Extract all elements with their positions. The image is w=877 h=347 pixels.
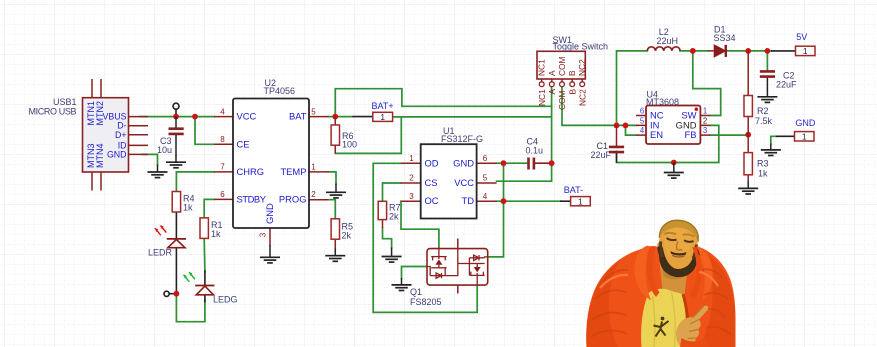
- svg-text:1: 1: [311, 163, 316, 172]
- wire CHRG to R4: [176, 172, 214, 192]
- wire Q1 left pin to ground: [402, 267, 428, 279]
- jacket collar right: [696, 247, 713, 300]
- svg-text:BAT-: BAT-: [564, 185, 583, 195]
- port GND: [795, 118, 816, 142]
- wire CS to R7: [383, 183, 401, 201]
- svg-text:R2: R2: [757, 106, 769, 116]
- face: [656, 219, 700, 274]
- ground gnd port: [761, 144, 781, 156]
- beard: [657, 248, 698, 278]
- switch SW1 Toggle Switch: [537, 35, 608, 110]
- wire C1 bottom rail: [617, 125, 719, 162]
- wire LEDG bottom lead: [204, 295, 206, 302]
- ic U4 MT3608: [636, 90, 710, 144]
- node LEDR cathode: [174, 291, 180, 297]
- svg-text:5: 5: [311, 107, 316, 116]
- svg-text:7.5k: 7.5k: [755, 116, 773, 126]
- jacket shading right arm: [699, 253, 736, 347]
- svg-text:Toggle Switch: Toggle Switch: [553, 42, 609, 52]
- svg-text:4: 4: [483, 192, 488, 201]
- svg-text:5: 5: [640, 117, 645, 126]
- svg-text:FS312F-G: FS312F-G: [441, 134, 483, 144]
- led LEDR: [148, 225, 186, 257]
- svg-text:5V: 5V: [796, 32, 807, 42]
- svg-text:5: 5: [483, 174, 488, 183]
- wire STDBY to R1: [204, 199, 214, 218]
- svg-text:22uF: 22uF: [776, 80, 797, 90]
- svg-text:GND: GND: [107, 149, 127, 159]
- svg-text:FS8205: FS8205: [410, 297, 442, 307]
- svg-text:3: 3: [703, 126, 707, 135]
- svg-text:1: 1: [703, 107, 707, 116]
- svg-text:NC1: NC1: [537, 89, 547, 106]
- capacitor C4 0.1u: [526, 137, 544, 170]
- svg-text:B: B: [567, 89, 577, 95]
- svg-text:GND: GND: [795, 118, 816, 128]
- svg-text:3: 3: [259, 232, 268, 237]
- wire EN tie: [626, 125, 637, 135]
- node BAT junction: [332, 114, 338, 120]
- ground temp: [326, 184, 346, 198]
- jacket shading left arm: [586, 260, 620, 347]
- node C4 VCC junction: [549, 160, 555, 166]
- wire BATminus port lead: [561, 200, 571, 202]
- svg-text:USB1: USB1: [53, 97, 77, 107]
- wire R7 ground jog: [383, 228, 392, 248]
- pointing hand: [676, 306, 708, 347]
- port BAT-: [564, 185, 591, 207]
- node C2 top: [765, 48, 771, 54]
- svg-text:1k: 1k: [758, 169, 768, 179]
- eyebrows: [664, 232, 694, 236]
- ground u2 pin3: [260, 245, 280, 263]
- wire TD to BATminus port: [497, 200, 561, 202]
- svg-text:22uF: 22uF: [590, 150, 611, 160]
- capacitor C2 22uF: [760, 71, 797, 91]
- wire 5V rail: [680, 50, 772, 52]
- svg-text:OC: OC: [425, 195, 439, 206]
- ground q1 left: [392, 278, 412, 291]
- node U1 GND riser: [501, 160, 507, 166]
- svg-text:MT3608: MT3608: [646, 97, 679, 107]
- svg-text:TD: TD: [462, 195, 475, 206]
- svg-text:1k: 1k: [183, 203, 193, 213]
- ground u4: [664, 163, 684, 179]
- svg-text:2: 2: [311, 190, 316, 199]
- svg-text:NC1: NC1: [537, 59, 547, 76]
- neck shadow: [662, 267, 686, 279]
- svg-text:D+: D+: [115, 130, 127, 140]
- svg-text:NC2: NC2: [577, 59, 587, 76]
- svg-text:22uH: 22uH: [657, 36, 679, 46]
- svg-text:10u: 10u: [157, 145, 172, 155]
- wire C2 top lead: [766, 51, 768, 71]
- svg-text:CHRG: CHRG: [237, 166, 265, 177]
- wire C3 riser: [175, 109, 177, 116]
- mustache: [670, 251, 686, 257]
- resistor R5 2k: [331, 219, 353, 249]
- svg-text:OD: OD: [425, 157, 439, 168]
- wire CE branch: [195, 117, 214, 145]
- wire A-net riser: [335, 89, 551, 117]
- ground c3: [166, 155, 186, 168]
- svg-text:1: 1: [380, 112, 385, 122]
- resistor R2 7.5k: [744, 51, 773, 135]
- shirt: [641, 289, 686, 347]
- ground r7: [382, 248, 402, 263]
- node R2 top: [745, 48, 751, 54]
- node SW riser: [690, 48, 696, 54]
- svg-text:LEDG: LEDG: [213, 295, 238, 305]
- svg-text:TEMP: TEMP: [280, 166, 306, 177]
- svg-text:GND: GND: [453, 157, 474, 168]
- wire USB GND to ground: [142, 154, 158, 165]
- port BAT+: [372, 101, 394, 122]
- svg-text:1: 1: [578, 196, 583, 206]
- neck: [660, 260, 689, 296]
- wire PROG to R5: [328, 200, 335, 219]
- svg-text:STDBY: STDBY: [237, 193, 267, 204]
- svg-text:6: 6: [640, 107, 644, 116]
- resistor R6 100: [331, 117, 357, 154]
- mouth: [672, 255, 685, 258]
- svg-text:1: 1: [802, 132, 807, 142]
- terminal at LED node: [164, 291, 169, 296]
- node FB divider: [745, 132, 751, 138]
- node C3 tap: [173, 114, 179, 120]
- wire TEMP to ground: [328, 172, 336, 184]
- inductor L2 22uH: [647, 27, 680, 51]
- capacitor C3 10u: [157, 117, 184, 156]
- ears: [657, 243, 699, 256]
- svg-text:1: 1: [803, 46, 808, 56]
- wire GND port elbow: [771, 136, 777, 144]
- svg-text:TP4056: TP4056: [264, 86, 296, 96]
- svg-text:2k: 2k: [342, 231, 352, 241]
- shirt fold: [653, 293, 676, 347]
- svg-text:PROG: PROG: [279, 193, 307, 204]
- wire GND port lead: [777, 135, 795, 137]
- svg-text:6: 6: [220, 190, 225, 199]
- wire R6 bottom loop: [335, 117, 401, 153]
- svg-text:2: 2: [409, 174, 414, 183]
- svg-text:2k: 2k: [389, 212, 399, 222]
- svg-text:R3: R3: [757, 159, 769, 169]
- ic U2 TP4056: [214, 78, 328, 246]
- svg-text:1: 1: [409, 154, 414, 163]
- wire OC to Q1: [401, 201, 439, 247]
- svg-text:LEDR: LEDR: [148, 248, 173, 258]
- svg-text:MTN4: MTN4: [95, 144, 105, 169]
- svg-text:3: 3: [409, 192, 414, 201]
- svg-text:VCC: VCC: [454, 177, 474, 188]
- svg-text:VCC: VCC: [237, 111, 257, 122]
- svg-text:7: 7: [220, 163, 225, 172]
- wire FB to divider: [710, 134, 748, 136]
- jacket zipper edge: [683, 294, 688, 347]
- svg-text:A: A: [547, 89, 557, 95]
- wire C4 right to junction: [535, 162, 552, 164]
- svg-text:4: 4: [640, 126, 645, 135]
- resistor R1 1k: [200, 218, 223, 239]
- wire BAT port lead: [353, 116, 373, 118]
- svg-text:EN: EN: [650, 129, 663, 140]
- connector USB1 MICRO USB: [29, 79, 149, 191]
- wire open terminal stub: [169, 293, 176, 295]
- port 5V: [796, 32, 816, 56]
- svg-text:8: 8: [220, 135, 225, 144]
- svg-text:0.1u: 0.1u: [526, 146, 544, 156]
- wire COM to IN: [562, 87, 636, 126]
- diode D1 SS34: [708, 25, 736, 57]
- wire LED bottom U loop: [176, 294, 205, 322]
- svg-text:4: 4: [220, 107, 225, 116]
- eyes closed: [666, 238, 693, 242]
- capacitor C1 22uF: [590, 125, 624, 162]
- jacket highlights: [600, 272, 718, 288]
- wire VBUS rail: [140, 116, 214, 118]
- head group tilted: [655, 219, 701, 279]
- svg-text:2: 2: [703, 117, 707, 126]
- ground usb gnd pin: [148, 165, 168, 178]
- svg-text:COM: COM: [557, 56, 567, 76]
- ic U1 FS312F-G: [401, 126, 497, 219]
- svg-text:Q1: Q1: [410, 287, 422, 297]
- node CE branch: [192, 114, 198, 120]
- svg-text:NC2: NC2: [577, 89, 587, 106]
- drake meme figure: [586, 219, 735, 347]
- nose: [676, 241, 683, 250]
- svg-text:SS34: SS34: [714, 33, 736, 43]
- wire BATplus port to switch: [393, 116, 552, 118]
- svg-text:A: A: [547, 70, 557, 76]
- svg-text:MICRO USB: MICRO USB: [29, 107, 77, 117]
- svg-text:6: 6: [483, 154, 488, 163]
- jacket puffer seams: [591, 269, 731, 337]
- sleeve cuff: [680, 338, 710, 347]
- ground c2: [757, 90, 777, 103]
- node U4 ground tap: [671, 160, 677, 166]
- svg-text:GND: GND: [264, 203, 275, 224]
- white matte halo: [586, 246, 735, 347]
- hair: [659, 219, 699, 242]
- wire LEDR cathode lead: [175, 248, 177, 294]
- svg-text:B: B: [567, 70, 577, 76]
- node L2 tap: [614, 123, 620, 129]
- node EN tie: [623, 123, 629, 129]
- jacket collar left: [634, 246, 651, 300]
- node TD riser: [501, 198, 507, 204]
- svg-text:100: 100: [342, 139, 357, 149]
- svg-text:BAT: BAT: [289, 111, 307, 122]
- wire U1 GND row to C4: [497, 162, 528, 164]
- resistor R3 1k: [744, 135, 769, 182]
- wire LEDG top lead: [204, 271, 206, 286]
- resistor R4 1k: [172, 192, 194, 213]
- wire BATminus riser: [488, 163, 504, 257]
- svg-text:1k: 1k: [211, 229, 221, 239]
- jumpman logo: [654, 317, 669, 337]
- wire R4 to LEDR lead: [175, 212, 177, 239]
- wire 5V port lead: [772, 50, 796, 52]
- led LEDG: [183, 272, 237, 305]
- svg-text:COM: COM: [557, 90, 567, 110]
- wire SW staircase: [693, 51, 721, 116]
- resistor R7 2k: [378, 201, 400, 228]
- transistor Q1 FS8205 dual mosfet: [410, 239, 488, 308]
- svg-text:BAT+: BAT+: [372, 101, 394, 111]
- ground r3: [738, 182, 758, 195]
- wire OD long loop: [373, 163, 477, 312]
- sideburns: [659, 242, 696, 261]
- wire R1 to LEDG: [203, 238, 206, 272]
- svg-text:CE: CE: [237, 138, 250, 149]
- wire BAT junction: [328, 116, 353, 118]
- wire L2 branch: [617, 51, 648, 126]
- ground r5: [325, 249, 345, 262]
- face center tone: [663, 226, 693, 258]
- svg-text:FB: FB: [685, 129, 697, 140]
- svg-text:CS: CS: [425, 177, 438, 188]
- terminal above C3: [173, 103, 179, 109]
- jacket body: [586, 246, 735, 347]
- wire pin A vertical: [497, 87, 552, 182]
